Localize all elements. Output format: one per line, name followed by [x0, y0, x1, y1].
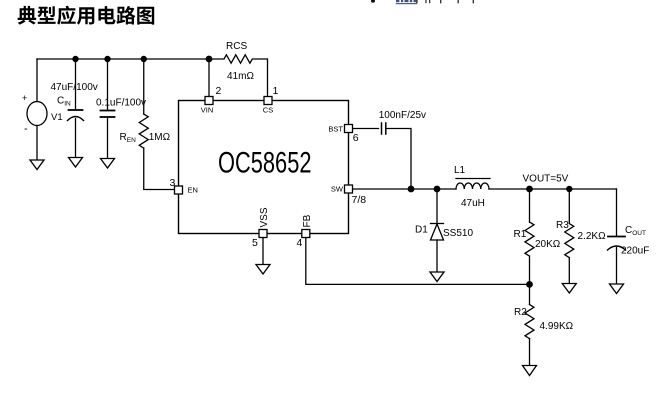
wire REN drop	[143, 59, 145, 114]
inductor L1	[456, 183, 489, 189]
svg-text:7/8: 7/8	[352, 194, 367, 206]
wire VSS ground drop	[262, 238, 264, 265]
wire 0.1uF drop	[107, 59, 109, 110]
svg-text:6: 6	[353, 132, 359, 144]
wire top rail	[37, 58, 209, 60]
resistor RCS	[209, 55, 268, 97]
wire R3 bottom	[568, 258, 570, 284]
svg-text:1MΩ: 1MΩ	[149, 132, 171, 143]
svg-text:R3: R3	[556, 220, 569, 231]
svg-text:-: -	[24, 123, 28, 135]
wire R1 bottom	[529, 256, 531, 284]
pin 6 BST square	[345, 125, 353, 133]
wire SW net	[353, 188, 457, 190]
svg-text:VIN: VIN	[201, 106, 214, 115]
svg-text:D1: D1	[415, 225, 428, 236]
capacitor CIN	[69, 109, 83, 111]
pin 5 VSS square	[259, 230, 267, 238]
wire COUT bottom	[616, 248, 618, 285]
svg-text:OC58652: OC58652	[218, 146, 312, 179]
resistor R1	[525, 222, 534, 256]
svg-text:+: +	[22, 93, 27, 103]
capacitor 100nF/25v	[381, 123, 383, 134]
ground (D1)	[430, 272, 444, 282]
cut-off bullet list fragment at top	[371, 0, 474, 4]
wire CIN bottom	[75, 119, 77, 158]
svg-text:2.2KΩ: 2.2KΩ	[578, 231, 607, 242]
ground (CIN)	[69, 158, 83, 168]
diode D1	[431, 223, 444, 225]
svg-text:EN: EN	[188, 186, 198, 195]
svg-text:SW: SW	[331, 185, 344, 194]
svg-text:FB: FB	[302, 214, 313, 227]
svg-text:1: 1	[273, 85, 279, 97]
svg-text:47uF/100v: 47uF/100v	[51, 82, 98, 93]
junction node dots	[72, 56, 78, 62]
wire D1 drop	[436, 189, 438, 224]
voltage source V1	[27, 102, 47, 126]
ground (V1)	[30, 160, 44, 170]
wire FB net	[306, 238, 530, 285]
svg-text:CS: CS	[263, 106, 273, 115]
resistor R2	[525, 305, 534, 339]
svg-text:4: 4	[297, 237, 303, 249]
wire R2 drop	[529, 284, 531, 304]
ground (0.1uF)	[101, 159, 115, 169]
wire R3 drop	[568, 189, 570, 224]
wire D1 bottom	[436, 240, 438, 272]
svg-text:RCS: RCS	[226, 41, 247, 52]
wire R1 drop	[529, 189, 531, 222]
ground (R3)	[562, 284, 576, 294]
resistor R3	[565, 224, 574, 258]
wire REN to EN	[144, 148, 175, 189]
svg-text:4.99KΩ: 4.99KΩ	[540, 321, 574, 332]
svg-text:2: 2	[216, 85, 222, 97]
svg-text:5: 5	[252, 237, 258, 249]
svg-text:R2: R2	[514, 307, 527, 318]
wire COUT drop	[616, 189, 618, 237]
IC U1 OC58652 body	[179, 101, 349, 234]
svg-text:BST: BST	[328, 125, 343, 134]
wire R2 bottom	[529, 339, 531, 366]
pin 3 EN square	[175, 186, 183, 194]
ground (COUT)	[610, 284, 624, 294]
wire V1 top drop	[36, 59, 38, 102]
svg-text:VSS: VSS	[259, 207, 270, 227]
svg-text:VOUT=5V: VOUT=5V	[523, 174, 569, 185]
pin 2 VIN square	[205, 97, 213, 105]
ground (R2)	[523, 366, 537, 376]
svg-text:L1: L1	[454, 165, 466, 176]
svg-text:220uF: 220uF	[621, 246, 649, 257]
wire L1 to VOUT rail	[489, 188, 617, 190]
ground (VSS)	[256, 265, 270, 275]
svg-text:20KΩ: 20KΩ	[535, 239, 561, 250]
svg-text:100nF/25v: 100nF/25v	[379, 110, 426, 121]
pin 1 CS square	[264, 97, 272, 105]
svg-text:0.1uF/100v: 0.1uF/100v	[96, 98, 146, 109]
title 典型应用电路图	[18, 6, 155, 25]
resistor REN	[139, 114, 148, 148]
pin 4 FB square	[302, 230, 310, 238]
svg-text:SS510: SS510	[443, 228, 473, 239]
wire BST net	[353, 128, 379, 130]
svg-text:V1: V1	[51, 112, 63, 123]
svg-text:47uH: 47uH	[461, 198, 485, 209]
wire CIN drop	[75, 59, 77, 110]
wire V1 bottom	[36, 126, 38, 161]
svg-text:R1: R1	[514, 229, 527, 240]
capacitor 0.1uF	[101, 110, 115, 112]
svg-text:41mΩ: 41mΩ	[227, 71, 254, 82]
wire 0.1uF bottom	[107, 117, 109, 159]
svg-text:3: 3	[170, 177, 176, 189]
capacitor COUT	[608, 236, 625, 238]
wire VIN drop	[208, 59, 210, 97]
pin 7/8 SW square	[345, 185, 353, 193]
